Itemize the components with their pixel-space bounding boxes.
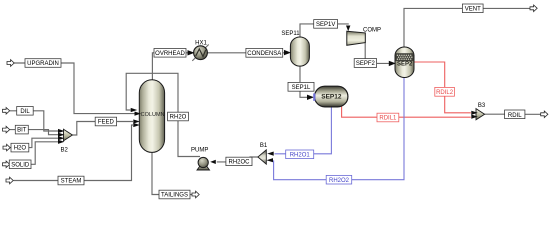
- svg-text:RH2O1: RH2O1: [290, 153, 311, 159]
- svg-text:B1: B1: [260, 143, 268, 149]
- svg-text:SEP1L: SEP1L: [292, 85, 311, 91]
- svg-text:BIT: BIT: [17, 128, 27, 134]
- svg-text:DIL: DIL: [20, 109, 30, 115]
- svg-text:COMP: COMP: [363, 27, 381, 33]
- svg-text:B2: B2: [61, 147, 69, 153]
- svg-text:OVRHEAD: OVRHEAD: [155, 51, 185, 57]
- svg-text:UPGRADIN: UPGRADIN: [27, 61, 59, 67]
- svg-text:B3: B3: [478, 103, 486, 109]
- svg-text:SOLID: SOLID: [11, 162, 30, 168]
- svg-text:SEP2: SEP2: [397, 62, 413, 68]
- svg-text:RDIL2: RDIL2: [436, 90, 454, 96]
- svg-text:H2O: H2O: [14, 146, 27, 152]
- svg-text:RDIL: RDIL: [508, 113, 522, 119]
- svg-text:CONDENSA: CONDENSA: [247, 51, 281, 57]
- svg-text:RH2OC: RH2OC: [228, 160, 250, 166]
- svg-text:FEED: FEED: [98, 120, 115, 126]
- svg-text:RH2O: RH2O: [170, 115, 187, 121]
- svg-text:COLUMN: COLUMN: [141, 112, 165, 118]
- svg-text:VENT: VENT: [465, 6, 481, 12]
- svg-text:SEP12: SEP12: [321, 94, 342, 101]
- svg-text:HX1: HX1: [195, 41, 207, 47]
- svg-text:SEP1V: SEP1V: [316, 22, 335, 28]
- svg-text:RH2O2: RH2O2: [329, 178, 350, 184]
- svg-text:PUMP: PUMP: [191, 147, 208, 153]
- svg-text:SEP11: SEP11: [281, 31, 300, 37]
- svg-text:TAILINGS: TAILINGS: [161, 193, 188, 199]
- svg-text:SEPF2: SEPF2: [356, 61, 376, 67]
- svg-text:RDIL1: RDIL1: [379, 116, 397, 122]
- svg-text:STEAM: STEAM: [61, 179, 82, 185]
